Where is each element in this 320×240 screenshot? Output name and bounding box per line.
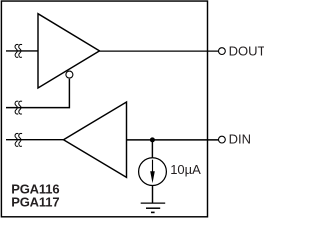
svg-text:PGA117: PGA117 [11,195,59,210]
break symbol (squiggle) on U2 output wire [15,133,22,146]
op-amp U2 (DIN input receiver, points left) [64,102,127,177]
wire (U1 output to DOUT terminal) [100,50,219,52]
wire (U2 output to internal net, left) [6,139,64,141]
device outline box [1,1,207,217]
wire (junction down to current source I1) [151,140,153,158]
wire (enable bubble down and left to internal net) [6,79,69,108]
svg-text:10µA: 10µA [170,162,201,177]
terminal DIN (open circle pin) [219,136,226,143]
current source I1 (10uA pulldown) [139,158,167,186]
wire (DIN terminal to U2 input) [127,139,219,141]
terminal DOUT (open circle pin) [219,48,226,55]
op-amp U1 (DOUT output buffer) [38,14,100,88]
wire (current source to ground) [152,186,154,204]
break symbol (squiggle) on enable wire [15,101,22,114]
svg-text:DOUT: DOUT [229,44,264,59]
wire (input to U1 from internal net) [6,50,38,52]
break symbol (squiggle) on U1 input wire [15,44,22,57]
enable bubble on U1 (inverting control input) [66,71,73,78]
junction (node: DIN wire to current source) [150,137,155,142]
svg-text:DIN: DIN [229,132,251,147]
ground [141,202,166,204]
